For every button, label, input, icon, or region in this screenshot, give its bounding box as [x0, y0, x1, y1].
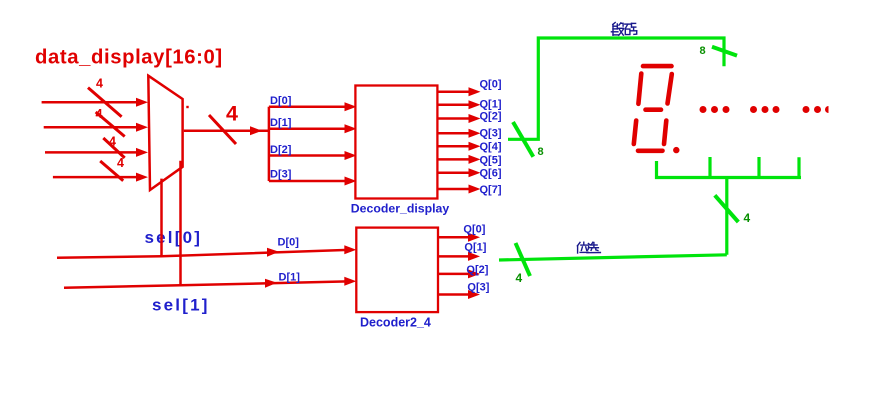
svg-text:Q[1]: Q[1]: [464, 242, 486, 254]
svg-text:sel[0]: sel[0]: [145, 228, 203, 247]
svg-text:4: 4: [109, 135, 116, 149]
svg-text:D[2]: D[2]: [270, 144, 292, 156]
svg-text:Q[4]: Q[4]: [480, 141, 502, 153]
svg-text:Q[2]: Q[2]: [480, 111, 502, 123]
svg-text:4: 4: [226, 101, 238, 125]
svg-text:data_display[16:0]: data_display[16:0]: [35, 47, 223, 69]
svg-text:4: 4: [117, 156, 124, 170]
svg-text:sel[1]: sel[1]: [152, 295, 210, 314]
svg-text:D[1]: D[1]: [279, 272, 301, 284]
svg-text:Q[6]: Q[6]: [480, 168, 502, 180]
svg-text:4: 4: [96, 107, 103, 121]
svg-text:Q[3]: Q[3]: [480, 128, 502, 140]
svg-text:Q[0]: Q[0]: [480, 79, 502, 91]
svg-text:D[3]: D[3]: [270, 169, 292, 181]
svg-text:8: 8: [700, 45, 706, 57]
svg-text:Decoder2_4: Decoder2_4: [360, 315, 431, 329]
svg-text:D[1]: D[1]: [270, 117, 292, 129]
svg-text:Q[5]: Q[5]: [480, 155, 502, 167]
svg-text:4: 4: [516, 271, 523, 285]
svg-text:Q[7]: Q[7]: [480, 184, 502, 196]
svg-text:Q[0]: Q[0]: [463, 223, 485, 235]
svg-text:Q[2]: Q[2]: [466, 264, 488, 276]
svg-text:Decoder_display: Decoder_display: [351, 202, 450, 216]
svg-text:D[0]: D[0]: [270, 95, 292, 107]
svg-text:D[0]: D[0]: [278, 237, 300, 249]
svg-text:4: 4: [96, 77, 103, 91]
svg-text:Q[3]: Q[3]: [467, 281, 489, 293]
svg-text:Q[1]: Q[1]: [480, 99, 502, 111]
svg-text:8: 8: [538, 146, 544, 158]
svg-text:4: 4: [744, 211, 751, 225]
